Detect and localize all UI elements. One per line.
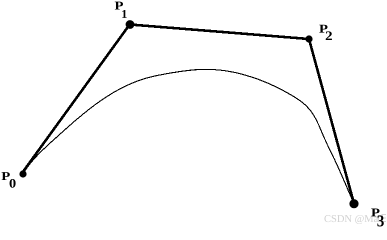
wire P2-P3 (control polygon edge)	[309, 39, 354, 204]
node P2 (control point dot)	[305, 35, 312, 42]
wire P0-P1 (control polygon edge)	[21, 24, 130, 174]
node P0 (control point dot)	[19, 170, 26, 177]
watermark partial glyph	[377, 214, 386, 223]
node P3 (control point dot)	[349, 199, 358, 208]
bezier curve	[23, 69, 354, 203]
svg-text:CSDN @Ma: CSDN @Ma	[324, 214, 379, 225]
label P0	[2, 172, 16, 188]
wire P1-P2 (control polygon edge)	[130, 25, 309, 40]
node P1 (control point dot)	[126, 20, 135, 29]
label P1	[115, 2, 127, 18]
label P2	[319, 25, 332, 40]
label P3	[371, 209, 384, 227]
